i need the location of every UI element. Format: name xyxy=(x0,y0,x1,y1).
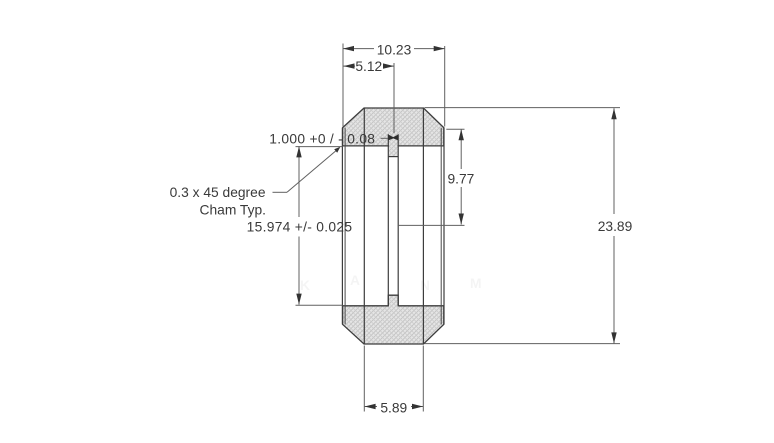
svg-text:0.3 x 45 degree: 0.3 x 45 degree xyxy=(170,185,266,200)
top chamfer band (hatched section) xyxy=(343,108,444,146)
right outer edge line xyxy=(443,128,445,325)
slot left wall xyxy=(387,134,389,305)
svg-text:Cham Typ.: Cham Typ. xyxy=(200,202,266,217)
chamfer note with leader xyxy=(170,147,341,218)
svg-text:5.89: 5.89 xyxy=(380,400,407,415)
svg-text:N: N xyxy=(420,278,430,293)
dimension 10.23 xyxy=(343,42,445,126)
dimension 15.974 xyxy=(247,146,353,305)
right bore wall line xyxy=(422,108,424,344)
svg-text:K: K xyxy=(300,278,310,293)
svg-text:1.000 +0 / - 0.08: 1.000 +0 / - 0.08 xyxy=(269,131,375,146)
svg-text:10.23: 10.23 xyxy=(377,42,412,57)
left chamfer circle line xyxy=(344,128,346,325)
bottom chamfer band (hatched section) xyxy=(343,295,444,344)
svg-text:5.12: 5.12 xyxy=(355,59,382,74)
svg-text:15.974 +/- 0.025: 15.974 +/- 0.025 xyxy=(247,220,353,235)
svg-text:9.77: 9.77 xyxy=(447,171,474,186)
watermark xyxy=(300,273,482,293)
left bore wall line xyxy=(363,108,365,344)
dimension 5.12 xyxy=(344,59,395,133)
slot width arrows (bowtie) xyxy=(388,135,398,141)
label 1.000 bore with leader xyxy=(269,131,388,146)
dimension 5.89 xyxy=(364,346,423,416)
left outer edge line xyxy=(341,128,343,325)
slot right wall xyxy=(397,134,399,305)
svg-text:A: A xyxy=(350,273,360,288)
svg-text:M: M xyxy=(470,276,482,291)
dimension 9.77 xyxy=(399,129,475,225)
slot top hatched plug xyxy=(388,141,398,157)
dimension 23.89 xyxy=(425,108,633,344)
svg-text:23.89: 23.89 xyxy=(598,219,633,234)
right chamfer circle line xyxy=(440,128,442,325)
